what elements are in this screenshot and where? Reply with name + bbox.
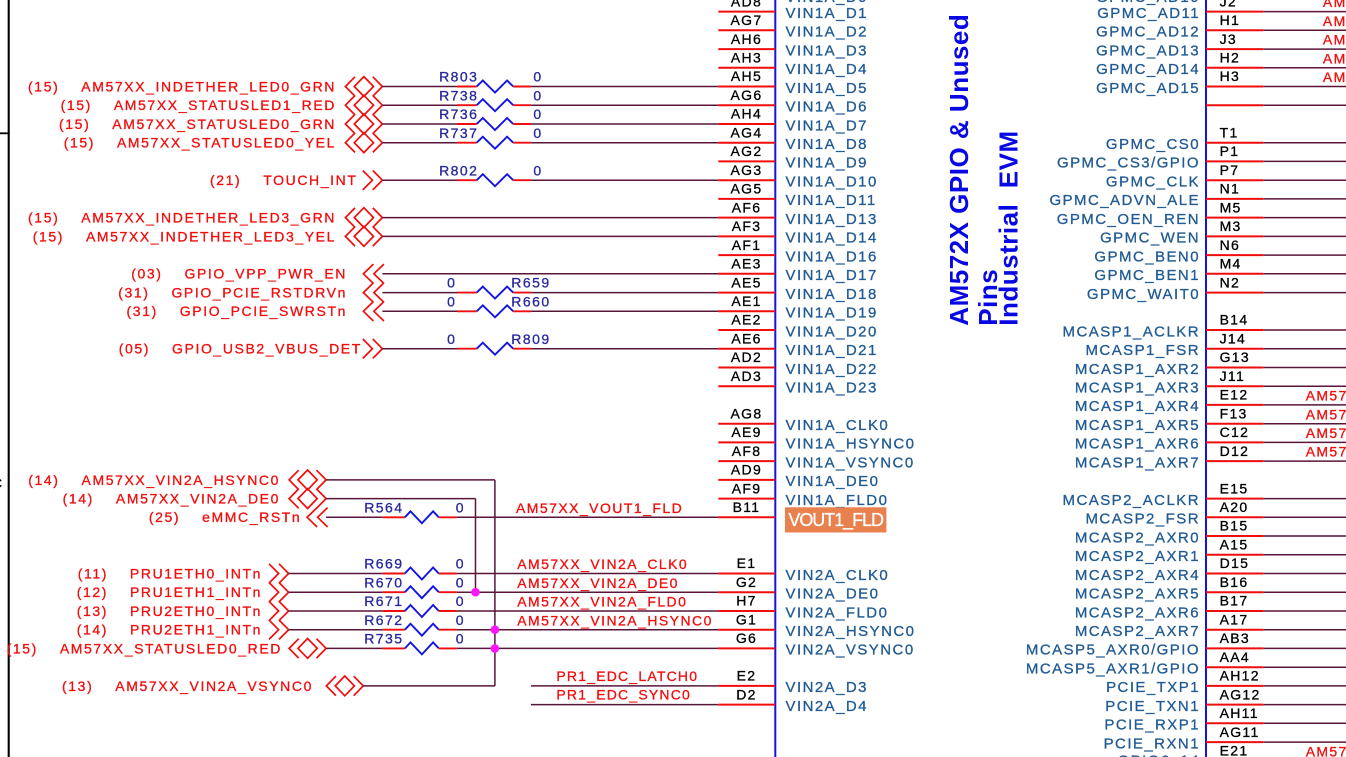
svg-text:E21: E21 [1220, 743, 1249, 757]
resistor R802 body [477, 174, 514, 186]
off-page connector PRU2ETH1_INTn [269, 620, 289, 639]
resistor R564 refdes label [364, 499, 403, 515]
junction dot HSYNC0 net at STATUSLED0_RED row [491, 644, 500, 653]
off-page flag text (03) GPIO_VPP_PWR_EN [131, 266, 347, 282]
pin stub row k9 (right) [1206, 179, 1263, 181]
pin stub G6 (left) [718, 647, 775, 649]
svg-text:GPMC_WAIT0: GPMC_WAIT0 [1087, 286, 1200, 303]
pin name VIN1A_DE0 [786, 473, 880, 490]
pin stub row k7 (right) [1206, 142, 1263, 144]
wire AM57XX_VIN2A_HSYNC0 horizontal [326, 479, 495, 481]
pin number E21 [1220, 743, 1249, 757]
svg-text:MCASP2_AXR6: MCASP2_AXR6 [1075, 604, 1200, 621]
pin stub row k33 (right) [1206, 629, 1263, 631]
wire right of row k23 [1263, 441, 1346, 443]
wire on row PRU2ETH0_INTn [289, 610, 383, 612]
pin name PCIE_TXP1 [1106, 679, 1200, 696]
pin stub row k30 (right) [1206, 573, 1263, 575]
pin name VIN1A_CLK0 [786, 417, 890, 434]
pin number M5 [1220, 199, 1242, 215]
off-page connector AM57XX_VIN2A_HSYNC0 [289, 470, 326, 490]
svg-text:A15: A15 [1220, 537, 1249, 553]
svg-text:MCASP1_ACLKR: MCASP1_ACLKR [1063, 323, 1200, 340]
resistor R802 refdes label [439, 162, 478, 178]
off-page connector GPIO_PCIE_RSTDRVn [363, 283, 384, 302]
wire right of row k30 [1263, 573, 1346, 575]
svg-text:0: 0 [533, 106, 542, 122]
resistor R735 right lead [439, 647, 457, 649]
pin number A20 [1220, 499, 1249, 515]
IC U1 AM572X left body edge [774, 0, 776, 757]
off-page flag text (15) AM57XX_STATUSLED0_YEL [64, 135, 336, 151]
svg-text:VOUT1_FLD: VOUT1_FLD [788, 510, 884, 531]
svg-text:AM57XX_MCASP1_AXR7: AM57XX_MCASP1_AXR7 [1306, 444, 1346, 460]
resistor R672 refdes label [364, 612, 403, 628]
wire right of row k5 [1263, 104, 1346, 106]
svg-text:(21) TOUCH_INT: (21) TOUCH_INT [210, 172, 358, 188]
pin name MCASP1_AXR7 [1075, 454, 1200, 471]
svg-text:AE6: AE6 [731, 330, 761, 346]
svg-text:AM57XX_MCASP1_AXR5: AM57XX_MCASP1_AXR5 [1306, 406, 1346, 422]
svg-text:0: 0 [447, 275, 456, 291]
svg-text:MCASP1_AXR5: MCASP1_AXR5 [1075, 417, 1200, 434]
resistor R735 refdes label [364, 631, 403, 647]
pin stub row k35 (right) [1206, 666, 1263, 668]
off-page flag text (05) GPIO_USB2_VBUS_DET [119, 341, 362, 357]
off-page connector AM57XX_INDETHER_LED3_YEL [345, 227, 382, 247]
pin name GPMC_OEN_REN [1057, 211, 1200, 228]
svg-text:VIN1A_D11: VIN1A_D11 [786, 192, 877, 209]
page border zone letter C [0, 475, 2, 491]
net label AM57XX_MCASP1_AXR4 (clipped) [1306, 388, 1346, 404]
pin name VIN1A_D21 [786, 342, 878, 359]
pin number A17 [1220, 611, 1249, 627]
svg-text:AH11: AH11 [1220, 705, 1259, 721]
pin stub row k31 (right) [1206, 591, 1263, 593]
resistor R735 left lead [383, 647, 405, 649]
pin stub AE2 (left) [718, 329, 775, 331]
off-page connector eMMC_RSTn [307, 508, 328, 527]
wire on row GPIO_USB2_VBUS_DET [531, 348, 718, 350]
svg-text:MCASP1_AXR7: MCASP1_AXR7 [1075, 454, 1200, 471]
pin name GPMC_ADVN_ALE [1049, 192, 1200, 209]
resistor R736 right lead [513, 123, 531, 125]
pin name GPMC_CLK [1106, 174, 1200, 191]
off-page connector PRU1ETH0_INTn [269, 564, 289, 583]
svg-text:AD9: AD9 [731, 462, 762, 478]
pin number AG11 [1220, 724, 1260, 740]
svg-text:(15) AM57XX_INDETHER_LED3_Y: (15) AM57XX_INDETHER_LED3_YEL [33, 228, 336, 244]
pin stub AG3 (left) [718, 179, 775, 181]
IC U1 clipped pin name VIN1A_D0 (top edge) [786, 0, 868, 6]
pin stub row k14 (right) [1206, 273, 1263, 275]
svg-text:0: 0 [533, 125, 542, 141]
pin stub row k10 (right) [1206, 198, 1263, 200]
off-page connector AM57XX_STATUSLED1_RED [345, 95, 382, 115]
pin stub row k12 (right) [1206, 235, 1263, 237]
net label AM57XX_GPMC_AD12 (clipped) [1323, 13, 1346, 29]
pin number AF3 [732, 218, 762, 234]
svg-text:P7: P7 [1220, 162, 1240, 178]
pin stub AE1 (left) [718, 310, 775, 312]
svg-text:T1: T1 [1220, 124, 1239, 140]
svg-text:GPMC_CS3/GPIO: GPMC_CS3/GPIO [1057, 155, 1200, 172]
wire right of row k4 [1263, 86, 1346, 88]
off-page flag text (14) AM57XX_VIN2A_DE0 [63, 491, 280, 507]
wire R564 to pin B11 [457, 516, 718, 518]
pin stub E1 (left) [718, 573, 775, 575]
wire right of row k0 [1263, 11, 1346, 13]
wire right of row k8 [1263, 160, 1346, 162]
svg-text:VIN2A_DE0: VIN2A_DE0 [786, 586, 880, 603]
svg-text:B15: B15 [1220, 518, 1249, 534]
resistor R564 left lead [383, 516, 405, 518]
svg-text:0: 0 [533, 162, 542, 178]
resistor R802 right lead [513, 179, 531, 181]
svg-text:J14: J14 [1220, 330, 1246, 346]
resistor R735 value 0 [456, 631, 465, 647]
resistor R672 right lead [439, 629, 457, 631]
svg-text:H3: H3 [1220, 68, 1241, 84]
wire right of row k9 [1263, 179, 1346, 181]
pin number G2 [736, 574, 757, 590]
pin number B11 [733, 499, 761, 515]
svg-text:N2: N2 [1220, 274, 1241, 290]
pin name VIN1A_D19 [786, 305, 878, 322]
svg-text:PCIE_RXN1: PCIE_RXN1 [1104, 735, 1200, 752]
svg-text:GPMC_ADVN_ALE: GPMC_ADVN_ALE [1049, 192, 1200, 209]
svg-text:G1: G1 [736, 611, 757, 627]
svg-text:H2: H2 [1220, 50, 1241, 66]
wire on row PRU1ETH1_INTn [289, 591, 383, 593]
svg-text:(15) AM57XX_STATUSLED0_GRN: (15) AM57XX_STATUSLED0_GRN [59, 116, 336, 132]
off-page connector GPIO_VPP_PWR_EN [363, 264, 384, 283]
pin name MCASP2_AXR7 [1075, 623, 1200, 640]
resistor R738 refdes label [439, 87, 478, 103]
pin stub G1 (left) [718, 629, 775, 631]
wire on row AM57XX_STATUSLED1_RED [531, 104, 718, 106]
svg-text:MCASP1_AXR2: MCASP1_AXR2 [1075, 361, 1200, 378]
pin number AF8 [732, 443, 762, 459]
pin name MCASP2_AXR6 [1075, 604, 1200, 621]
svg-text:(15) AM57XX_STATUSLED1_RED: (15) AM57XX_STATUSLED1_RED [61, 97, 336, 113]
svg-text:VIN1A_D7: VIN1A_D7 [786, 117, 868, 134]
svg-text:VIN1A_D18: VIN1A_D18 [786, 286, 878, 303]
svg-text:0: 0 [456, 631, 465, 647]
wire right of row k1 [1263, 29, 1346, 31]
resistor R736 value 0 [533, 106, 542, 122]
pin number B16 [1220, 574, 1249, 590]
pin stub row k3 (right) [1206, 67, 1263, 69]
svg-text:(14) AM57XX_VIN2A_DE0: (14) AM57XX_VIN2A_DE0 [63, 491, 280, 507]
svg-text:VIN1A_D13: VIN1A_D13 [786, 211, 878, 228]
wire vertical HSYNC0 net [494, 480, 496, 686]
svg-text:(12) PRU1ETH1_INTn: (12) PRU1ETH1_INTn [77, 584, 262, 600]
svg-text:MCASP2_AXR4: MCASP2_AXR4 [1075, 567, 1200, 584]
wire right of row k3 [1263, 67, 1346, 69]
resistor R671 right lead [439, 610, 457, 612]
svg-text:AG11: AG11 [1220, 724, 1260, 740]
svg-text:AM57XX_VOUT1_FLD: AM57XX_VOUT1_FLD [516, 500, 683, 516]
pin stub E2 (left) [718, 685, 775, 687]
off-page flag text (14) AM57XX_VIN2A_HSYNC0 [28, 472, 280, 488]
pin number J11 [1220, 368, 1245, 384]
svg-text:Industrial EVM: Industrial EVM [994, 130, 1024, 325]
pin stub AG2 (left) [718, 160, 775, 162]
resistor R803 left lead [457, 86, 477, 88]
off-page flag text (15) AM57XX_INDETHER_LED3_YEL [33, 228, 336, 244]
pin number N2 [1220, 274, 1241, 290]
svg-text:MCASP2_AXR1: MCASP2_AXR1 [1075, 548, 1200, 565]
svg-text:GPIO6_14: GPIO6_14 [1118, 752, 1200, 757]
svg-text:VIN1A_D4: VIN1A_D4 [786, 61, 868, 78]
pin stub AG6 (left) [718, 104, 775, 106]
svg-text:GPMC_AD11: GPMC_AD11 [1097, 5, 1200, 22]
wire right of row k33 [1263, 629, 1346, 631]
svg-text:G13: G13 [1220, 349, 1250, 365]
pin number AE5 [731, 274, 761, 290]
pin stub row k21 (right) [1206, 404, 1263, 406]
pin number B14 [1220, 312, 1249, 328]
svg-text:D15: D15 [1220, 555, 1250, 571]
pin stub row k2 (right) [1206, 48, 1263, 50]
svg-text:R564: R564 [364, 499, 403, 515]
off-page connector GPIO_USB2_VBUS_DET [363, 339, 383, 358]
svg-text:(15) AM57XX_INDETHER_LED3_G: (15) AM57XX_INDETHER_LED3_GRN [28, 210, 336, 226]
svg-text:0: 0 [456, 593, 465, 609]
pin number AE9 [731, 424, 761, 440]
resistor R802 left lead [457, 179, 477, 181]
resistor R669 refdes label [364, 556, 403, 572]
pin stub AF3 (left) [718, 235, 775, 237]
IC U1 title line 1 [944, 14, 974, 326]
wire right of row k2 [1263, 48, 1346, 50]
IC U1 AM572X right body edge [1205, 0, 1207, 757]
pin number AH11 [1220, 705, 1259, 721]
resistor R737 right lead [513, 142, 531, 144]
off-page connector GPIO_PCIE_SWRSTn [363, 302, 384, 321]
wire on row PRU2ETH1_INTn [457, 629, 718, 631]
svg-text:M4: M4 [1220, 256, 1242, 272]
resistor R803 body [477, 81, 514, 93]
resistor R660 refdes label [511, 293, 550, 309]
resistor R670 value 0 [456, 574, 465, 590]
off-page flag text (12) PRU1ETH1_INTn [77, 584, 262, 600]
pin stub row k22 (right) [1206, 423, 1263, 425]
pin number N1 [1220, 181, 1241, 197]
wire on row PRU1ETH0_INTn [289, 573, 383, 575]
pin number AG4 [731, 124, 763, 140]
svg-text:VIN1A_FLD0: VIN1A_FLD0 [786, 492, 889, 509]
resistor R671 refdes label [364, 593, 403, 609]
svg-text:E12: E12 [1220, 387, 1249, 403]
wire on row GPIO_USB2_VBUS_DET [382, 348, 457, 350]
pin number J2 [1220, 0, 1237, 9]
pin name MCASP5_AXR0/GPIO [1026, 642, 1200, 659]
wire on row AM57XX_INDETHER_LED0_GRN [382, 86, 457, 88]
svg-text:VIN1A_D9: VIN1A_D9 [786, 155, 868, 172]
pin name GPMC_WAIT0 [1087, 286, 1200, 303]
wire vertical DE0 net [475, 499, 477, 593]
pin name VIN1A_D17 [786, 267, 878, 284]
svg-text:VIN1A_D8: VIN1A_D8 [786, 136, 868, 153]
svg-text:0: 0 [447, 331, 456, 347]
svg-text:GPMC_BEN1: GPMC_BEN1 [1094, 267, 1200, 284]
svg-text:AM57XX_MCASP1_AXR4: AM57XX_MCASP1_AXR4 [1306, 388, 1346, 404]
wire right of row k34 [1263, 647, 1346, 649]
pin stub AE3 (left) [718, 273, 775, 275]
resistor R802 value 0 [533, 162, 542, 178]
svg-text:R669: R669 [364, 556, 403, 572]
pin name VIN1A_D2 [786, 24, 868, 41]
wire right of row k18 [1263, 348, 1346, 350]
svg-text:MCASP1_AXR3: MCASP1_AXR3 [1075, 380, 1200, 397]
svg-text:A17: A17 [1220, 611, 1249, 627]
off-page flag text (13) PRU2ETH0_INTn [77, 603, 262, 619]
pin stub row k20 (right) [1206, 385, 1263, 387]
svg-text:AM57XX_GPMC_AD12: AM57XX_GPMC_AD12 [1323, 13, 1346, 29]
svg-text:VIN1A_D1: VIN1A_D1 [786, 5, 868, 22]
svg-text:AE1: AE1 [731, 293, 761, 309]
svg-text:G2: G2 [736, 574, 757, 590]
svg-text:E15: E15 [1220, 480, 1249, 496]
off-page flag text (13) AM57XX_VIN2A_VSYNC0 [62, 678, 313, 694]
resistor R660 right lead [513, 310, 531, 312]
svg-text:MCASP1_AXR6: MCASP1_AXR6 [1075, 436, 1200, 453]
wire AM57XX_INDETHER_LED3_GRN to pin [382, 217, 718, 219]
pin name VIN1A_VSYNC0 [786, 454, 915, 471]
svg-text:PR1_EDC_LATCH0: PR1_EDC_LATCH0 [556, 668, 698, 684]
svg-text:(25) eMMC_RSTn: (25) eMMC_RSTn [149, 509, 301, 525]
resistor R809 right lead [513, 348, 531, 350]
svg-text:VIN1A_D20: VIN1A_D20 [786, 323, 878, 340]
resistor R803 right lead [513, 86, 531, 88]
wire right of row k27 [1263, 516, 1346, 518]
net label AM57XX_MCASP1_AXR6 (clipped) [1306, 425, 1346, 441]
wire AM57XX_VIN2A_DE0 horizontal [326, 498, 475, 500]
resistor R564 value 0 [456, 499, 465, 515]
pin number M3 [1220, 218, 1242, 234]
pin stub AG4 (left) [718, 142, 775, 144]
wire PR1_EDC_SYNC0 [531, 704, 718, 706]
wire right of row k12 [1263, 235, 1346, 237]
pin stub AE6 (left) [718, 348, 775, 350]
pin name VIN1A_D18 [786, 286, 878, 303]
wire right of row k31 [1263, 591, 1346, 593]
svg-text:AE5: AE5 [731, 274, 761, 290]
pin name GPMC_AD13 [1096, 42, 1200, 59]
svg-text:VIN1A_D22: VIN1A_D22 [786, 361, 878, 378]
pin stub row k18 (right) [1206, 348, 1263, 350]
resistor R738 value 0 [533, 87, 542, 103]
svg-text:AE9: AE9 [731, 424, 761, 440]
svg-text:(13) PRU2ETH0_INTn: (13) PRU2ETH0_INTn [77, 603, 262, 619]
svg-text:(03) GPIO_VPP_PWR_EN: (03) GPIO_VPP_PWR_EN [131, 266, 347, 282]
svg-text:VIN2A_VSYNC0: VIN2A_VSYNC0 [786, 642, 915, 659]
svg-text:VIN1A_CLK0: VIN1A_CLK0 [786, 417, 890, 434]
resistor R669 left lead [383, 573, 405, 575]
resistor R737 body [477, 137, 514, 149]
pin number AF1 [732, 237, 762, 253]
pin stub row k0 (right) [1206, 11, 1263, 13]
wire on row TOUCH_INT [382, 179, 457, 181]
pin name VIN1A_D7 [786, 117, 868, 134]
pin stub row k27 (right) [1206, 516, 1263, 518]
off-page connector AM57XX_STATUSLED0_GRN [345, 114, 382, 134]
wire on row AM57XX_STATUSLED0_YEL [531, 142, 718, 144]
svg-text:AM57XX_VIN2A_FLD0: AM57XX_VIN2A_FLD0 [517, 594, 687, 610]
pin number C12 [1220, 424, 1250, 440]
net label AM57XX_GPMC_AD14 (clipped) [1323, 50, 1346, 66]
svg-text:AH5: AH5 [731, 68, 762, 84]
svg-text:MCASP1_AXR4: MCASP1_AXR4 [1075, 398, 1200, 415]
svg-text:AG12: AG12 [1220, 686, 1261, 702]
pin name PCIE_RXN1 [1104, 735, 1200, 752]
svg-text:0: 0 [456, 499, 465, 515]
resistor R672 body [405, 624, 439, 636]
pin stub row k28 (right) [1206, 535, 1263, 537]
wire AM57XX_VIN2A_VSYNC0 horizontal [363, 685, 495, 687]
wire on row AM57XX_STATUSLED0_RED [326, 647, 383, 649]
wire eMMC_RSTn to R564 [326, 516, 383, 518]
pin name VIN1A_D22 [786, 361, 878, 378]
svg-text:VIN1A_D21: VIN1A_D21 [786, 342, 878, 359]
off-page connector AM57XX_STATUSLED0_YEL [345, 133, 382, 153]
off-page connector AM57XX_INDETHER_LED0_GRN [345, 77, 382, 97]
pin name VIN1A_D6 [786, 99, 868, 116]
wire right of row k24 [1263, 460, 1346, 462]
svg-text:J2: J2 [1220, 0, 1237, 9]
resistor R670 refdes label [364, 574, 403, 590]
svg-text:C: C [0, 475, 2, 491]
pin number AF6 [732, 199, 762, 215]
pin number H2 [1220, 50, 1241, 66]
svg-text:B16: B16 [1220, 574, 1249, 590]
pin number AH3 [731, 50, 762, 66]
pin stub row k23 (right) [1206, 441, 1263, 443]
wire right of row k35 [1263, 666, 1346, 668]
wire on row TOUCH_INT [531, 179, 718, 181]
wire on row PRU2ETH0_INTn [457, 610, 718, 612]
svg-text:VIN1A_D16: VIN1A_D16 [786, 248, 878, 265]
pin stub AD8 (left) [718, 11, 775, 13]
pin name VIN1A_FLD0 [786, 492, 889, 509]
pin number AG3 [731, 162, 763, 178]
svg-text:J3: J3 [1220, 31, 1237, 47]
svg-text:AG8: AG8 [731, 405, 763, 421]
pin name GPMC_AD12 [1096, 24, 1200, 41]
svg-text:(05) GPIO_USB2_VBUS_DET: (05) GPIO_USB2_VBUS_DET [119, 341, 362, 357]
wire right of row k22 [1263, 423, 1346, 425]
pin number AE2 [731, 312, 761, 328]
pin stub row k4 (right) [1206, 86, 1263, 88]
pin stub row k32 (right) [1206, 610, 1263, 612]
pin number AD3 [731, 368, 762, 384]
resistor R660 left lead [457, 310, 477, 312]
wire on row GPIO_PCIE_RSTDRVn [531, 292, 718, 294]
resistor R659 right lead [513, 292, 531, 294]
resistor R669 body [405, 568, 439, 580]
pin stub AF1 (left) [718, 254, 775, 256]
svg-text:0: 0 [456, 612, 465, 628]
wire right of row k36 [1263, 685, 1346, 687]
svg-text:(15) AM57XX_INDETHER_LED0_G: (15) AM57XX_INDETHER_LED0_GRN [28, 78, 336, 94]
wire right of row k17 [1263, 329, 1346, 331]
wire AM57XX_INDETHER_LED3_YEL to pin [382, 235, 718, 237]
svg-text:R809: R809 [511, 331, 550, 347]
pin number D2 [736, 686, 757, 702]
pin name VIN2A_D3 [786, 679, 868, 696]
